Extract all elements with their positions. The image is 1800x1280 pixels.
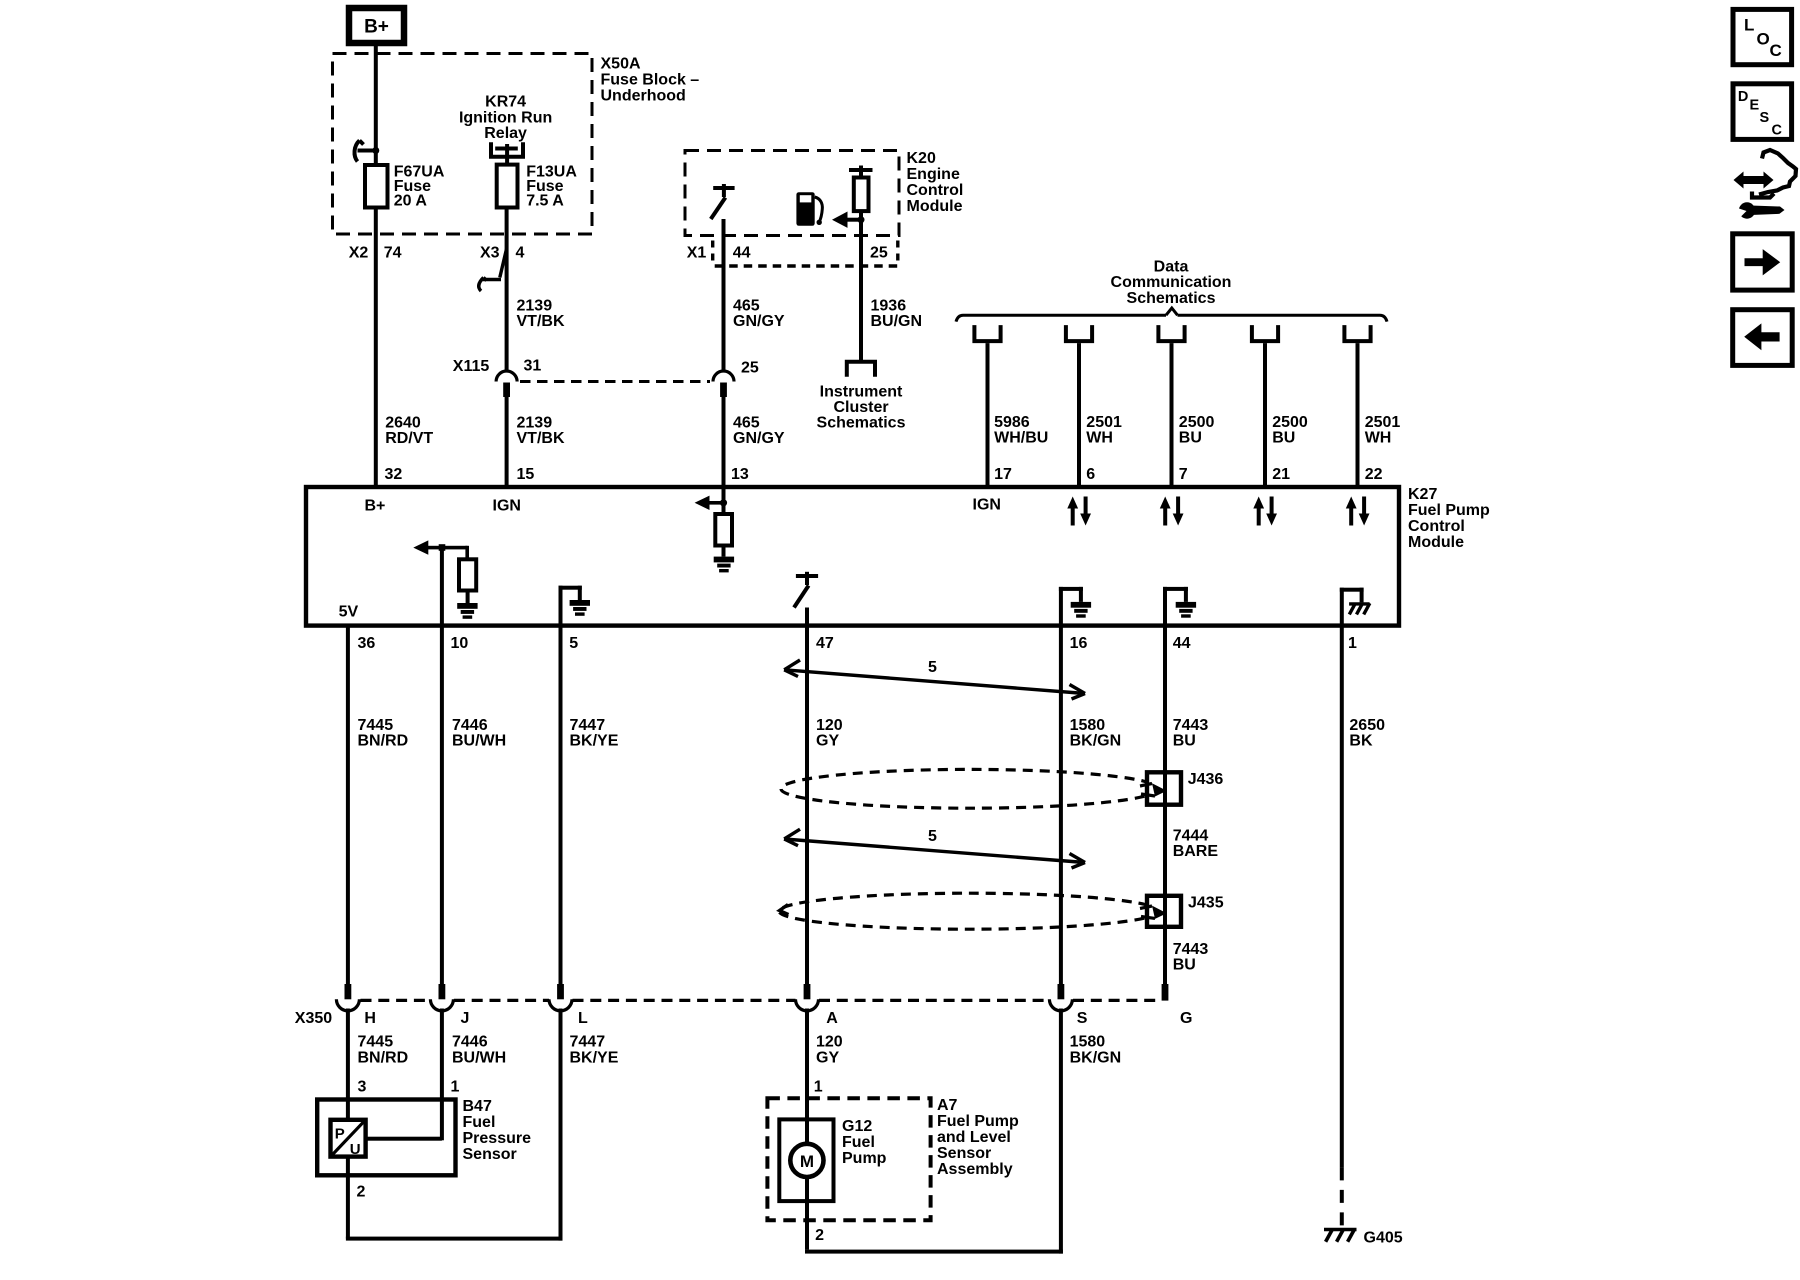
wire B+ feed to fuse F67UA bbox=[374, 43, 378, 165]
svg-text:Fuel Pump: Fuel Pump bbox=[937, 1113, 1019, 1130]
off-page reference to Instrument Cluster bbox=[845, 362, 877, 377]
svg-text:2500: 2500 bbox=[1272, 414, 1308, 431]
bidirectional arrows pin 21 bbox=[1253, 497, 1277, 526]
motor M symbol bbox=[790, 1144, 823, 1177]
label circuit 7445 BN/RD lower bbox=[358, 1034, 409, 1067]
svg-text:47: 47 bbox=[816, 635, 834, 652]
internal ground stub at pin 44 bbox=[1163, 587, 1196, 626]
svg-text:GY: GY bbox=[816, 1049, 839, 1066]
label circuit 2139 VT/BK lower bbox=[517, 415, 565, 448]
svg-text:4: 4 bbox=[516, 245, 525, 262]
fuel pump icon inside K20 bbox=[796, 192, 822, 226]
sidebar icon forward arrow box bbox=[1733, 234, 1793, 290]
wire B47 pin 2 down and across to L bbox=[346, 1157, 350, 1239]
svg-text:Fuel: Fuel bbox=[463, 1114, 496, 1131]
svg-text:2640: 2640 bbox=[385, 415, 421, 432]
fuse F13UA 7.5 A bbox=[497, 165, 518, 208]
label circuit 7443 BU upper bbox=[1173, 717, 1209, 750]
svg-text:7445: 7445 bbox=[358, 717, 394, 734]
svg-text:X50A: X50A bbox=[601, 56, 641, 73]
svg-text:7447: 7447 bbox=[570, 717, 606, 734]
svg-text:2650: 2650 bbox=[1349, 717, 1385, 734]
label circuit 1580 BK/GN upper bbox=[1070, 717, 1122, 750]
label K27 Fuel Pump Control Module bbox=[1408, 486, 1490, 551]
sidebar icon LOC box bbox=[1733, 9, 1792, 64]
svg-text:1: 1 bbox=[814, 1079, 823, 1096]
wire fuse F67UA to module pin 32 bbox=[374, 208, 378, 489]
svg-text:G: G bbox=[1180, 1010, 1192, 1027]
svg-text:BU/WH: BU/WH bbox=[452, 1049, 506, 1066]
svg-text:22: 22 bbox=[1365, 466, 1383, 483]
svg-text:Control: Control bbox=[907, 182, 964, 199]
sidebar icon DESC box bbox=[1733, 84, 1792, 140]
svg-text:K20: K20 bbox=[907, 150, 936, 167]
svg-text:Ignition Run: Ignition Run bbox=[459, 110, 552, 127]
twisted pair crossover arrow lower with label 5 bbox=[784, 829, 1085, 868]
label X50A Fuse Block Underhood bbox=[601, 56, 700, 105]
svg-text:120: 120 bbox=[816, 1034, 843, 1051]
svg-text:465: 465 bbox=[733, 415, 760, 432]
svg-text:P: P bbox=[335, 1126, 345, 1143]
svg-text:BARE: BARE bbox=[1173, 843, 1219, 860]
svg-text:2: 2 bbox=[357, 1184, 366, 1201]
bottom pin numbers of module K27 bbox=[358, 635, 1358, 652]
wire K20 pin 44 down to connector X115 bbox=[722, 219, 726, 371]
svg-text:1: 1 bbox=[451, 1079, 460, 1096]
pin letters H J L A S G bbox=[364, 1010, 1192, 1027]
wire serial data 5986 bbox=[986, 343, 990, 487]
bidirectional arrows pin 22 bbox=[1346, 497, 1370, 526]
wire K20 pin 25 down to off-page symbol bbox=[859, 220, 863, 360]
labels X115 31 25 bbox=[453, 358, 759, 377]
svg-text:BU/WH: BU/WH bbox=[452, 733, 506, 750]
svg-text:10: 10 bbox=[451, 635, 469, 652]
label A7 Fuel Pump and Level Sensor Assembly bbox=[937, 1097, 1019, 1178]
svg-text:32: 32 bbox=[385, 466, 403, 483]
svg-text:J: J bbox=[461, 1010, 470, 1027]
svg-text:7443: 7443 bbox=[1173, 941, 1209, 958]
svg-text:Sensor: Sensor bbox=[463, 1146, 517, 1163]
engine control module K20 dashed box bbox=[685, 151, 899, 236]
svg-text:K27: K27 bbox=[1408, 486, 1437, 503]
svg-text:BK/YE: BK/YE bbox=[570, 733, 619, 750]
svg-text:GY: GY bbox=[816, 733, 839, 750]
svg-text:Relay: Relay bbox=[484, 125, 527, 142]
svg-text:and Level: and Level bbox=[937, 1129, 1011, 1146]
connector X350 pin A bbox=[804, 984, 811, 999]
label circuit 7447 BK/YE lower bbox=[570, 1034, 619, 1067]
svg-text:44: 44 bbox=[1173, 635, 1191, 652]
svg-text:7446: 7446 bbox=[452, 717, 488, 734]
sensor element P/U symbol bbox=[331, 1120, 366, 1157]
svg-text:Assembly: Assembly bbox=[937, 1161, 1013, 1178]
top pin numbers of module K27 bbox=[385, 466, 1383, 483]
wire X350 A to fuel pump G12 pin 1 bbox=[805, 1009, 809, 1147]
svg-text:2501: 2501 bbox=[1086, 414, 1122, 431]
connector X115 pin 25 symbol bbox=[713, 371, 734, 382]
internal chassis ground stub at pin 1 bbox=[1340, 588, 1370, 626]
wire X350 J to sensor B47 pin 1 bbox=[440, 1009, 444, 1141]
svg-text:C: C bbox=[1772, 123, 1783, 139]
svg-text:BN/RD: BN/RD bbox=[358, 733, 409, 750]
label circuit 2500 BU a bbox=[1179, 414, 1215, 447]
wire serial data 2501 b bbox=[1356, 343, 1360, 487]
wire connector X115 pin25 to module pin 13 bbox=[722, 397, 726, 488]
svg-text:Cluster: Cluster bbox=[833, 399, 888, 416]
switch symbol inside K20 at pin 44 bbox=[711, 184, 735, 219]
connector X350 pin S bbox=[1058, 984, 1065, 999]
wire G12 pin 1 inside bbox=[805, 1119, 809, 1145]
svg-text:6: 6 bbox=[1086, 466, 1095, 483]
wire connector X115 pin31 to module pin 15 bbox=[505, 397, 509, 488]
svg-text:5: 5 bbox=[928, 659, 937, 676]
label circuit 1936 BU/GN bbox=[871, 298, 923, 331]
svg-text:Engine: Engine bbox=[907, 166, 960, 183]
svg-text:BU: BU bbox=[1173, 957, 1196, 974]
svg-text:36: 36 bbox=[358, 635, 376, 652]
svg-text:7443: 7443 bbox=[1173, 717, 1209, 734]
label circuit 2500 BU b bbox=[1272, 414, 1308, 447]
wire serial data 2501 a bbox=[1077, 343, 1081, 487]
svg-text:IGN: IGN bbox=[973, 497, 1001, 514]
wire module pin 16 to connector X350 pin S bbox=[1059, 626, 1063, 984]
svg-text:44: 44 bbox=[733, 245, 751, 262]
svg-text:C: C bbox=[1770, 41, 1782, 60]
svg-text:O: O bbox=[1757, 30, 1770, 49]
label G12 Fuel Pump bbox=[842, 1118, 887, 1167]
current arrow below connector X3 pin 4 bbox=[479, 249, 507, 291]
wire module pin 36 to connector X350 pin H bbox=[346, 626, 350, 984]
fuel pump control module K27 box bbox=[306, 487, 1399, 626]
svg-text:BU: BU bbox=[1173, 733, 1196, 750]
svg-text:Underhood: Underhood bbox=[601, 88, 686, 105]
svg-text:J435: J435 bbox=[1188, 895, 1224, 912]
svg-text:120: 120 bbox=[816, 717, 843, 734]
svg-text:25: 25 bbox=[870, 245, 888, 262]
svg-text:1: 1 bbox=[1348, 635, 1357, 652]
driver symbol inside K20 at pin 25 bbox=[849, 166, 873, 178]
svg-text:X3: X3 bbox=[480, 245, 500, 262]
svg-text:G405: G405 bbox=[1364, 1230, 1403, 1247]
twisted pair loop lower dashed ellipse bbox=[779, 893, 1159, 929]
svg-text:E: E bbox=[1750, 98, 1760, 114]
label circuit 7445 BN/RD upper bbox=[358, 717, 409, 750]
dashed wire to ground G405 bbox=[1340, 1167, 1344, 1228]
splice J436 box bbox=[1147, 772, 1181, 804]
svg-text:3: 3 bbox=[358, 1079, 367, 1096]
label Data Communication Schematics bbox=[1111, 259, 1232, 307]
label circuit 1580 BK/GN lower bbox=[1070, 1034, 1122, 1067]
wire module pin 10 to connector X350 pin J bbox=[440, 549, 444, 984]
pin numbers 3 1 1 bbox=[358, 1079, 823, 1096]
svg-text:Communication: Communication bbox=[1111, 274, 1232, 291]
connector X350 pin H bbox=[345, 984, 352, 999]
svg-text:Schematics: Schematics bbox=[1127, 290, 1216, 307]
svg-text:B+: B+ bbox=[364, 17, 389, 38]
svg-text:Fuel: Fuel bbox=[842, 1134, 875, 1151]
svg-text:7446: 7446 bbox=[452, 1034, 488, 1051]
svg-text:16: 16 bbox=[1070, 635, 1088, 652]
svg-text:Sensor: Sensor bbox=[937, 1145, 991, 1162]
svg-text:Module: Module bbox=[907, 198, 963, 215]
svg-text:7.5 A: 7.5 A bbox=[526, 193, 564, 210]
svg-text:25: 25 bbox=[741, 360, 759, 377]
label circuit 5986 WH/BU bbox=[994, 414, 1048, 447]
junction at fuse F67UA arrow bbox=[372, 147, 379, 154]
label circuit 2501 WH b bbox=[1365, 414, 1401, 447]
svg-text:2139: 2139 bbox=[517, 298, 553, 315]
label circuit 465 GN/GY lower bbox=[733, 415, 785, 448]
svg-text:1936: 1936 bbox=[871, 298, 907, 315]
svg-text:2500: 2500 bbox=[1179, 414, 1215, 431]
wire relay KR74 to fuse F13UA bbox=[505, 149, 509, 165]
svg-text:Pump: Pump bbox=[842, 1150, 887, 1167]
label circuit 2139 VT/BK upper bbox=[517, 298, 565, 331]
svg-text:465: 465 bbox=[733, 298, 760, 315]
svg-text:74: 74 bbox=[384, 245, 402, 262]
svg-text:BK/YE: BK/YE bbox=[570, 1049, 619, 1066]
ground G405 chassis symbol bbox=[1324, 1229, 1357, 1242]
wire module pin 47 to connector X350 pin A bbox=[805, 608, 809, 985]
connector X350 dashed line bbox=[361, 999, 1162, 1002]
wire module pin 5 to connector X350 pin L bbox=[559, 626, 563, 984]
svg-text:S: S bbox=[1077, 1010, 1088, 1027]
svg-text:BU/GN: BU/GN bbox=[871, 313, 923, 330]
svg-text:J436: J436 bbox=[1188, 771, 1224, 788]
labels connector X1 pins 44 and 25 bbox=[687, 245, 888, 262]
svg-text:Instrument: Instrument bbox=[820, 384, 903, 401]
svg-text:L: L bbox=[578, 1010, 588, 1027]
svg-text:2501: 2501 bbox=[1365, 414, 1401, 431]
svg-text:A: A bbox=[826, 1010, 838, 1027]
current arrow at fuse F67UA bbox=[355, 141, 376, 162]
label circuit 2650 BK bbox=[1349, 717, 1385, 750]
svg-text:5V: 5V bbox=[339, 604, 359, 621]
wire serial data 2500 b bbox=[1263, 343, 1267, 487]
svg-text:5: 5 bbox=[569, 635, 578, 652]
label circuit 2640 RD/VT bbox=[385, 415, 433, 448]
svg-text:BU: BU bbox=[1272, 430, 1295, 447]
connector X350 pin G termination bbox=[1162, 984, 1169, 1001]
svg-text:Control: Control bbox=[1408, 518, 1465, 535]
sidebar icon usage arrows and wrench bbox=[1734, 150, 1797, 219]
svg-text:7444: 7444 bbox=[1173, 828, 1209, 845]
svg-text:17: 17 bbox=[994, 466, 1012, 483]
svg-text:GN/GY: GN/GY bbox=[733, 313, 785, 330]
svg-text:A7: A7 bbox=[937, 1097, 958, 1114]
svg-text:2139: 2139 bbox=[517, 415, 553, 432]
wire module pin 1 to ground G405 solid part bbox=[1340, 626, 1344, 1168]
svg-text:GN/GY: GN/GY bbox=[733, 430, 785, 447]
connector X350 pin J bbox=[439, 984, 446, 999]
svg-text:X1: X1 bbox=[687, 245, 707, 262]
label KR74 Ignition Run Relay bbox=[459, 94, 552, 143]
fuel pump and level sensor assembly A7 dashed box bbox=[767, 1098, 930, 1220]
connector X350 pin L bbox=[557, 984, 564, 999]
labels connector X2 pin 74 bbox=[349, 245, 525, 262]
svg-text:31: 31 bbox=[524, 358, 542, 375]
connector X1 strip below K20 bbox=[713, 241, 900, 267]
svg-text:X115: X115 bbox=[453, 358, 490, 375]
svg-text:15: 15 bbox=[517, 466, 535, 483]
twisted pair loop upper dashed ellipse bbox=[781, 769, 1159, 808]
sidebar icon back arrow box bbox=[1733, 310, 1793, 366]
fuse F67UA 20 A bbox=[365, 165, 388, 208]
wire fuse F13UA to connector X115 pin 31 bbox=[505, 208, 509, 372]
brace over data communication wires bbox=[956, 308, 1387, 322]
wire through splice J436 bbox=[1163, 772, 1167, 804]
label circuit 7443 BU lower bbox=[1173, 941, 1209, 974]
svg-text:X2: X2 bbox=[349, 245, 369, 262]
svg-text:H: H bbox=[364, 1010, 376, 1027]
svg-text:WH/BU: WH/BU bbox=[994, 430, 1048, 447]
svg-text:BN/RD: BN/RD bbox=[358, 1049, 409, 1066]
output arrow inside K20 pointing to fuel pump bbox=[858, 216, 865, 223]
wire B47 pin 1 inside to sensor element bbox=[440, 1100, 444, 1141]
svg-text:S: S bbox=[1760, 110, 1770, 126]
svg-text:VT/BK: VT/BK bbox=[517, 313, 565, 330]
svg-text:5986: 5986 bbox=[994, 414, 1030, 431]
wire B47 pin 3 inside bbox=[346, 1100, 350, 1121]
svg-text:21: 21 bbox=[1272, 466, 1290, 483]
wire X350 H to sensor B47 pin 3 bbox=[346, 1009, 350, 1120]
wire through splice J435 bbox=[1163, 896, 1167, 927]
internal circuit at pin 10: 5V pullup resistor ground bbox=[413, 540, 477, 618]
label K20 Engine Control Module bbox=[907, 150, 964, 215]
dashed connector line X115 bbox=[520, 380, 710, 383]
label circuit 120 GY upper bbox=[816, 717, 843, 750]
twisted pair crossover arrow upper with label 5 bbox=[784, 660, 1085, 699]
svg-text:U: U bbox=[350, 1141, 361, 1158]
svg-text:1580: 1580 bbox=[1070, 717, 1106, 734]
svg-text:BU: BU bbox=[1179, 430, 1202, 447]
internal ground stub at pin 16 bbox=[1059, 587, 1091, 626]
svg-text:VT/BK: VT/BK bbox=[517, 430, 565, 447]
svg-text:L: L bbox=[1744, 16, 1754, 35]
svg-text:Fuel Pump: Fuel Pump bbox=[1408, 502, 1490, 519]
svg-text:RD/VT: RD/VT bbox=[385, 430, 433, 447]
svg-text:BK: BK bbox=[1349, 733, 1373, 750]
label B47 Fuel Pressure Sensor bbox=[463, 1098, 532, 1163]
svg-text:5: 5 bbox=[928, 828, 937, 845]
label circuit 7446 BU/WH lower bbox=[452, 1034, 506, 1067]
svg-text:2: 2 bbox=[815, 1227, 824, 1244]
svg-text:7: 7 bbox=[1179, 466, 1188, 483]
battery feed B+ terminal box bbox=[349, 8, 404, 43]
svg-text:7445: 7445 bbox=[358, 1034, 394, 1051]
svg-text:7447: 7447 bbox=[570, 1034, 606, 1051]
internal switch symbol at pin 47 bbox=[794, 572, 818, 608]
svg-text:G12: G12 bbox=[842, 1118, 872, 1135]
relay KR74 contact symbol bbox=[491, 142, 523, 156]
wire X350 L down to joint bbox=[559, 1009, 563, 1241]
label circuit 465 GN/GY upper bbox=[733, 298, 785, 331]
svg-text:KR74: KR74 bbox=[485, 94, 526, 111]
wire X350 S down to joint bbox=[1059, 1009, 1063, 1254]
label circuit 7444 BARE bbox=[1173, 828, 1219, 861]
label circuit 120 GY lower bbox=[816, 1034, 843, 1067]
wire module pin 44 to connector X350 pin G bbox=[1163, 626, 1167, 984]
internal ground stub at pin 5 bbox=[559, 586, 591, 626]
fuel pressure sensor B47 box bbox=[317, 1100, 455, 1176]
svg-text:Fuse Block –: Fuse Block – bbox=[601, 72, 700, 89]
svg-text:Module: Module bbox=[1408, 534, 1464, 551]
svg-text:D: D bbox=[1738, 89, 1748, 105]
label circuit 2501 WH a bbox=[1086, 414, 1122, 447]
svg-text:B+: B+ bbox=[365, 498, 386, 515]
svg-text:BK/GN: BK/GN bbox=[1070, 733, 1122, 750]
svg-text:20 A: 20 A bbox=[394, 193, 428, 210]
internal circuit at pin 13: wire junction arrow resistor ground bbox=[695, 489, 735, 572]
svg-text:Pressure: Pressure bbox=[463, 1130, 532, 1147]
svg-text:Schematics: Schematics bbox=[817, 415, 906, 432]
svg-text:WH: WH bbox=[1086, 430, 1113, 447]
fuse block X50A dashed box bbox=[333, 54, 593, 235]
svg-text:IGN: IGN bbox=[493, 498, 521, 515]
fuel pump G12 box bbox=[779, 1119, 833, 1201]
splice J435 box bbox=[1147, 896, 1181, 927]
wire G12 pin 2 down and across to S bbox=[805, 1177, 809, 1250]
svg-text:WH: WH bbox=[1365, 430, 1392, 447]
bidirectional arrows pin 7 bbox=[1160, 497, 1184, 526]
bidirectional arrows pin 6 bbox=[1067, 497, 1091, 526]
svg-text:1580: 1580 bbox=[1070, 1034, 1106, 1051]
svg-text:B47: B47 bbox=[463, 1098, 492, 1115]
svg-text:X350: X350 bbox=[295, 1010, 332, 1027]
svg-text:13: 13 bbox=[731, 466, 749, 483]
label circuit 7447 BK/YE upper bbox=[570, 717, 619, 750]
wire serial data 2500 a bbox=[1170, 343, 1174, 487]
off-page symbols data communication wires bbox=[972, 325, 1002, 341]
label circuit 7446 BU/WH upper bbox=[452, 717, 506, 750]
svg-text:BK/GN: BK/GN bbox=[1070, 1049, 1122, 1066]
svg-text:Data: Data bbox=[1154, 259, 1189, 276]
svg-text:M: M bbox=[800, 1152, 814, 1171]
connector X115 pin 31 symbol bbox=[496, 371, 517, 382]
